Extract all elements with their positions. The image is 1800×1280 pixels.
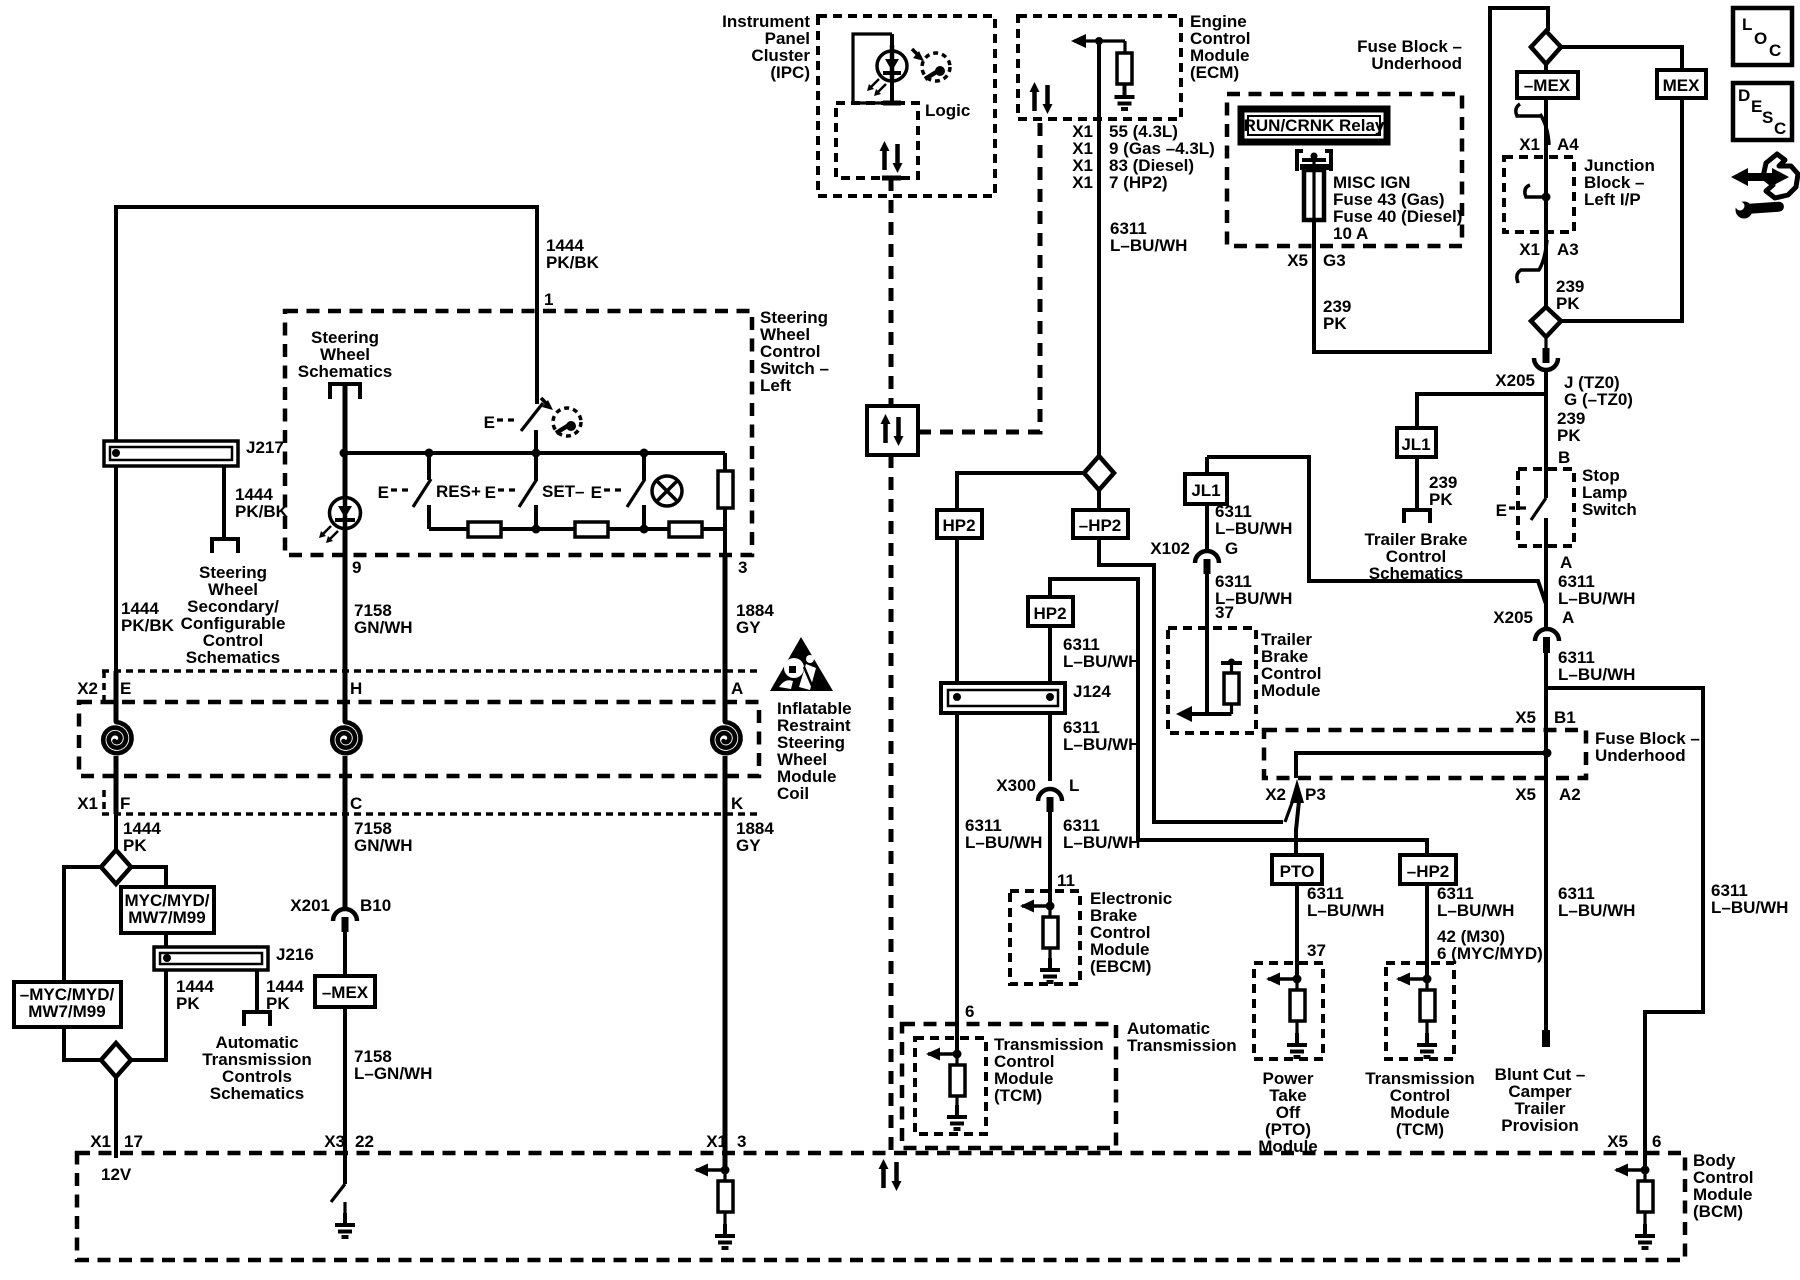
transmission control module dashed box (lower) bbox=[1386, 963, 1454, 1059]
TCM internal arrow bbox=[926, 1048, 954, 1061]
relay output terminal symbol bbox=[1311, 153, 1318, 160]
wire 6311 to BCM right bbox=[1547, 688, 1703, 1170]
PTO module internal arrow bbox=[1266, 973, 1294, 986]
HP2 box (second) bbox=[1028, 597, 1073, 626]
svg-text:L–BU/WH: L–BU/WH bbox=[1711, 898, 1788, 917]
svg-text:37: 37 bbox=[1307, 941, 1326, 960]
svg-text:3: 3 bbox=[737, 1132, 746, 1151]
svg-text:O: O bbox=[1754, 29, 1767, 48]
connector row X2 dotted line bbox=[102, 669, 757, 673]
off-page bracket steering wheel schematics bbox=[330, 384, 360, 399]
svg-text:L–BU/WH: L–BU/WH bbox=[1437, 901, 1514, 920]
svg-text:PK/BK: PK/BK bbox=[121, 616, 175, 635]
resistor R1 bbox=[468, 522, 501, 537]
stop lamp switch blade bbox=[1531, 498, 1546, 520]
serial data arrows in logic box bbox=[880, 141, 903, 173]
svg-text:X1: X1 bbox=[90, 1132, 111, 1151]
RUN/CRNK relay box bbox=[1241, 109, 1387, 142]
arrow pointing into speedometer bbox=[912, 49, 920, 57]
svg-text:JL1: JL1 bbox=[1191, 481, 1220, 500]
coil winding center bbox=[332, 722, 360, 753]
LED illumination arrows bbox=[870, 79, 879, 88]
svg-text:–MEX: –MEX bbox=[322, 983, 369, 1002]
wire from diamond to MEX bbox=[1561, 47, 1682, 70]
inline connector X205 J male stub bbox=[1544, 337, 1547, 349]
svg-text:HP2: HP2 bbox=[942, 516, 975, 535]
steering wheel control switch dashed box bbox=[285, 311, 752, 555]
wrench icon bbox=[1736, 202, 1753, 219]
BCM internal switch blade bbox=[331, 1184, 345, 1202]
svg-text:X1: X1 bbox=[706, 1132, 727, 1151]
svg-text:GY: GY bbox=[736, 836, 761, 855]
wire X201 to -MEX bbox=[343, 932, 347, 976]
svg-text:RUN/CRNK Relay: RUN/CRNK Relay bbox=[1244, 116, 1385, 135]
JL1 box (splice to X102) bbox=[1185, 474, 1227, 504]
EBCM internal arrow bbox=[1020, 900, 1048, 913]
ECM pull-up resistor bbox=[1123, 41, 1126, 53]
svg-text:L–BU/WH: L–BU/WH bbox=[1307, 901, 1384, 920]
svg-text:(IPC): (IPC) bbox=[770, 63, 810, 82]
svg-text:Schematics: Schematics bbox=[298, 362, 393, 381]
LED illumination arrows bbox=[322, 526, 331, 535]
svg-text:L–BU/WH: L–BU/WH bbox=[1110, 236, 1187, 255]
svg-text:E: E bbox=[1751, 97, 1762, 116]
svg-text:X300: X300 bbox=[996, 776, 1036, 795]
svg-text:A4: A4 bbox=[1557, 135, 1579, 154]
inline connector X205 J female cup bbox=[1534, 358, 1558, 370]
junction block left I/P dashed box bbox=[1504, 157, 1574, 232]
svg-text:L: L bbox=[1069, 776, 1079, 795]
fuse MISC IGN bbox=[1304, 170, 1324, 220]
svg-text:(BCM): (BCM) bbox=[1693, 1202, 1743, 1221]
svg-text:Switch: Switch bbox=[1582, 500, 1637, 519]
J217 splice pack bbox=[104, 441, 238, 466]
wire X300 to EBCM bbox=[1048, 812, 1052, 906]
inline connector X102 female dome bbox=[1195, 551, 1219, 563]
svg-text:L–GN/WH: L–GN/WH bbox=[354, 1064, 432, 1083]
wire from JL1 riser joining X205 A bbox=[1205, 457, 1209, 474]
svg-text:37: 37 bbox=[1215, 603, 1234, 622]
switch common rail bbox=[344, 451, 725, 455]
svg-text:MEX: MEX bbox=[1663, 76, 1701, 95]
svg-text:E: E bbox=[120, 679, 131, 698]
HP2 box (left) bbox=[937, 510, 982, 538]
blunt cut wire end stub bbox=[1542, 1030, 1550, 1047]
svg-text:PK: PK bbox=[123, 836, 147, 855]
svg-text:X102: X102 bbox=[1150, 539, 1190, 558]
svg-text:–HP2: –HP2 bbox=[1079, 516, 1122, 535]
resistor R2 bbox=[575, 522, 608, 537]
svg-text:6: 6 bbox=[965, 1002, 974, 1021]
svg-text:A: A bbox=[1562, 608, 1574, 627]
svg-text:PK/BK: PK/BK bbox=[546, 253, 600, 272]
left branch wire bbox=[64, 867, 101, 982]
svg-text:G3: G3 bbox=[1323, 251, 1346, 270]
SET- switch drop bbox=[534, 453, 538, 480]
svg-text:JL1: JL1 bbox=[1401, 435, 1430, 454]
TCM internal resistor bbox=[955, 1054, 958, 1065]
svg-text:L–BU/WH: L–BU/WH bbox=[1063, 833, 1140, 852]
wire 1884 GY from pin 3 bbox=[723, 557, 728, 720]
RES+ switch drop bbox=[427, 453, 431, 480]
inline connector X102 male stub bbox=[1204, 559, 1211, 574]
-MEX box (lower) bbox=[315, 976, 375, 1007]
wire branch into X2 P3 (left) bbox=[1285, 800, 1293, 822]
-HP2 box (lower) bbox=[1400, 855, 1456, 884]
wire through coil right bbox=[723, 671, 728, 722]
cancel lower drop bbox=[642, 505, 646, 529]
resistor R3 bbox=[669, 522, 702, 537]
wire from stop lamp switch down bbox=[1544, 518, 1548, 628]
BCM internal ground (pin 3) bbox=[715, 1224, 735, 1248]
svg-text:X1: X1 bbox=[1072, 173, 1093, 192]
trailer brake module resistor bbox=[1230, 663, 1233, 673]
cancel switch drop bbox=[642, 453, 646, 480]
svg-text:GY: GY bbox=[736, 618, 761, 637]
wire 239 PK to stop lamp switch bbox=[1544, 370, 1548, 498]
wire 6311 below X205 A bbox=[1544, 653, 1548, 1030]
splice diamond (6311) bbox=[1084, 456, 1114, 490]
automatic transmission dashed box bbox=[902, 1024, 1116, 1148]
svg-text:(EBCM): (EBCM) bbox=[1090, 957, 1151, 976]
svg-text:X5: X5 bbox=[1515, 708, 1536, 727]
svg-text:C: C bbox=[1769, 41, 1781, 60]
svg-text:L: L bbox=[1742, 15, 1752, 34]
stop lamp switch dashed box bbox=[1518, 469, 1574, 546]
svg-text:7 (HP2): 7 (HP2) bbox=[1109, 173, 1168, 192]
cancel switch blade bbox=[627, 479, 645, 507]
-MEX box bbox=[1517, 72, 1578, 98]
node dot bbox=[1543, 749, 1552, 758]
speedometer icon in IPC bbox=[922, 53, 950, 81]
svg-text:E: E bbox=[591, 483, 602, 502]
wire 7158 GN/WH from pin 9 bbox=[343, 557, 348, 720]
navigation double arrow bbox=[1744, 173, 1776, 181]
svg-text:MW7/M99: MW7/M99 bbox=[28, 1002, 105, 1021]
svg-text:J124: J124 bbox=[1073, 682, 1111, 701]
svg-text:B10: B10 bbox=[360, 896, 391, 915]
svg-text:–HP2: –HP2 bbox=[1407, 862, 1450, 881]
node T-bar at logic box top bbox=[883, 101, 901, 106]
J216 splice pack bbox=[154, 947, 268, 970]
-MYC/MYD/MW7/M99 box bbox=[14, 982, 121, 1027]
ECM internal arrow bbox=[1074, 39, 1125, 42]
svg-text:A3: A3 bbox=[1557, 240, 1579, 259]
svg-text:J216: J216 bbox=[276, 945, 314, 964]
svg-text:L–BU/WH: L–BU/WH bbox=[1558, 901, 1635, 920]
MYC/MYD/MW7/M99 box bbox=[121, 887, 214, 933]
PTO box bbox=[1272, 855, 1322, 884]
RES+ lower drop bbox=[427, 505, 431, 529]
RES+ switch blade bbox=[413, 479, 431, 507]
speedometer icon (cruise) bbox=[553, 408, 581, 436]
serial data dashed wire from IPC logic down bbox=[889, 178, 894, 406]
svg-text:Underhood: Underhood bbox=[1595, 746, 1686, 765]
wire 1444 PK/BK down left bbox=[114, 466, 118, 720]
svg-text:Schematics: Schematics bbox=[186, 648, 281, 667]
BCM internal ground (right) bbox=[1635, 1224, 1655, 1248]
BCM internal arrow (pin 3) bbox=[694, 1164, 722, 1177]
cruise on/off switch blade bbox=[521, 403, 543, 431]
EBCM internal ground bbox=[1040, 958, 1060, 982]
svg-text:PK: PK bbox=[1429, 490, 1453, 509]
svg-text:S: S bbox=[1762, 108, 1773, 127]
svg-text:–MEX: –MEX bbox=[1524, 76, 1571, 95]
logic dashed box bbox=[836, 103, 918, 178]
wire J124 to X300 bbox=[1048, 713, 1052, 781]
svg-text:X205: X205 bbox=[1495, 371, 1535, 390]
trailer brake module bottom wire with arrow bbox=[1181, 712, 1232, 716]
wire 7158 L-GN/WH to BCM bbox=[343, 1007, 347, 1184]
ECM serial data arrows bbox=[1030, 82, 1053, 114]
svg-text:Coil: Coil bbox=[777, 784, 809, 803]
cruise indicator LED L1 bbox=[877, 51, 907, 81]
svg-text:C: C bbox=[1774, 119, 1786, 138]
-HP2 box (upper) bbox=[1073, 510, 1128, 538]
MEX branch wire bbox=[1562, 98, 1682, 321]
svg-text:X5: X5 bbox=[1515, 785, 1536, 804]
svg-text:A: A bbox=[731, 679, 743, 698]
svg-text:L–BU/WH: L–BU/WH bbox=[1558, 665, 1635, 684]
svg-text:H: H bbox=[350, 679, 362, 698]
inline connector X300 female dome bbox=[1038, 789, 1062, 801]
svg-text:X2: X2 bbox=[77, 679, 98, 698]
svg-text:Left: Left bbox=[760, 376, 792, 395]
svg-text:X1: X1 bbox=[1519, 240, 1540, 259]
junction of JL1 branch bbox=[1417, 394, 1544, 428]
svg-text:A: A bbox=[1560, 553, 1572, 572]
fuse block underhood dashed box (lower) bbox=[1264, 730, 1586, 778]
svg-text:MW7/M99: MW7/M99 bbox=[128, 908, 205, 927]
wire from HP2 path to -HP2 module branch bbox=[1050, 579, 1427, 855]
svg-text:Underhood: Underhood bbox=[1371, 54, 1462, 73]
svg-text:L–BU/WH: L–BU/WH bbox=[1215, 519, 1292, 538]
svg-text:PTO: PTO bbox=[1280, 862, 1315, 881]
node dots on resistor rail bbox=[532, 525, 541, 534]
svg-text:A2: A2 bbox=[1559, 785, 1581, 804]
wire cruise switch to rail bbox=[534, 430, 538, 453]
svg-text:X1: X1 bbox=[1519, 135, 1540, 154]
svg-text:GN/WH: GN/WH bbox=[354, 618, 413, 637]
BCM serial data arrows bbox=[879, 1159, 902, 1191]
wire HP2 to TCM bbox=[955, 538, 959, 1054]
serial data junction box bbox=[867, 406, 918, 455]
inline connector X201 male stub bbox=[342, 917, 349, 932]
DESC legend box bbox=[1733, 83, 1792, 140]
BCM internal arrow (right) bbox=[1614, 1164, 1642, 1177]
svg-text:L–BU/WH: L–BU/WH bbox=[965, 833, 1042, 852]
wire -HP2 box to TCM module bbox=[1425, 884, 1429, 979]
svg-text:PK: PK bbox=[176, 994, 200, 1013]
engine control module (ECM) dashed box bbox=[1018, 16, 1181, 119]
wire J217 tap down bbox=[222, 466, 226, 539]
SET- lower drop bbox=[534, 505, 538, 529]
wire PTO box to module bbox=[1295, 884, 1299, 979]
splice diamond upper left bbox=[101, 850, 131, 884]
svg-text:D: D bbox=[1738, 86, 1750, 105]
body control module (BCM) dashed box bbox=[77, 1153, 1685, 1260]
svg-text:PK: PK bbox=[1556, 294, 1580, 313]
wire 6311 from X102 to trailer brake module bbox=[1205, 574, 1209, 714]
svg-text:K: K bbox=[731, 794, 744, 813]
node dots on rail bbox=[340, 449, 349, 458]
wire through coil center bbox=[343, 671, 348, 722]
EBCM internal resistor bbox=[1048, 906, 1051, 917]
inline connector X205 A male stub bbox=[1543, 637, 1550, 653]
LOC legend box bbox=[1733, 8, 1792, 65]
svg-text:RES+: RES+ bbox=[436, 482, 481, 501]
wire 1444 PK/BK top run bbox=[116, 207, 537, 441]
svg-text:G (–TZ0): G (–TZ0) bbox=[1564, 390, 1633, 409]
TCM module ground bbox=[1417, 1033, 1437, 1057]
trailer brake control module dashed box bbox=[1168, 628, 1256, 733]
svg-text:X2: X2 bbox=[1265, 785, 1286, 804]
TCM module resistor bbox=[1425, 979, 1428, 990]
svg-text:(TCM): (TCM) bbox=[994, 1086, 1042, 1105]
serial data dashed wire from junction box down to BCM bbox=[889, 455, 894, 1152]
off-page bracket steering wheel secondary bbox=[212, 539, 238, 553]
svg-text:10 A: 10 A bbox=[1333, 224, 1368, 243]
svg-text:9: 9 bbox=[352, 558, 361, 577]
trailer brake module internal contact bar bbox=[1221, 661, 1242, 665]
J124 splice pack bbox=[941, 683, 1065, 713]
inline connector X205 A female dome bbox=[1535, 629, 1559, 641]
fuse block underhood dashed box (top) bbox=[1227, 94, 1462, 246]
wire 6311 from ECM down bbox=[1097, 41, 1101, 457]
svg-text:12V: 12V bbox=[101, 1165, 132, 1184]
electronic brake control module dashed box bbox=[1010, 891, 1080, 984]
svg-text:X3: X3 bbox=[324, 1132, 345, 1151]
airbag warning triangle bbox=[770, 637, 833, 691]
node T-bar at logic box bottom bbox=[882, 176, 901, 181]
svg-text:X5: X5 bbox=[1607, 1132, 1628, 1151]
resistor rail bbox=[429, 527, 725, 531]
SET- switch blade bbox=[519, 479, 537, 507]
svg-text:22: 22 bbox=[355, 1132, 374, 1151]
svg-text:B1: B1 bbox=[1554, 708, 1576, 727]
wire -MEX down through junction block bbox=[1544, 64, 1548, 72]
off-page bracket automatic transmission controls bbox=[244, 1012, 270, 1026]
right branch resistor R4 bbox=[723, 453, 727, 471]
svg-text:L–BU/WH: L–BU/WH bbox=[1063, 652, 1140, 671]
wire JL1 to X102 bbox=[1205, 504, 1209, 551]
svg-text:X1: X1 bbox=[77, 794, 98, 813]
PTO module resistor bbox=[1295, 979, 1298, 990]
svg-text:1: 1 bbox=[544, 290, 553, 309]
coil winding right bbox=[712, 722, 740, 753]
wire through indicator bbox=[890, 34, 894, 101]
connector arrow X2 P3 bbox=[1290, 779, 1304, 803]
svg-text:E: E bbox=[378, 483, 389, 502]
junction block internal hook bbox=[1525, 185, 1546, 197]
svg-text:PK: PK bbox=[1323, 314, 1347, 333]
transmission control module dashed box (upper) bbox=[915, 1038, 986, 1134]
serial data dashed wire from ECM to junction box bbox=[918, 119, 1040, 432]
LED indicator (steering wheel) bbox=[330, 498, 361, 529]
svg-text:P3: P3 bbox=[1305, 785, 1326, 804]
svg-text:11: 11 bbox=[1057, 871, 1075, 890]
TCM internal ground bbox=[947, 1105, 967, 1129]
svg-text:E: E bbox=[485, 483, 496, 502]
svg-text:SET–: SET– bbox=[542, 482, 585, 501]
svg-text:3: 3 bbox=[738, 558, 747, 577]
svg-text:(TCM): (TCM) bbox=[1396, 1120, 1444, 1139]
navigation hand icon bbox=[1763, 154, 1798, 198]
BCM internal resistor (pin 3) bbox=[723, 1170, 726, 1181]
wire HP2 second down to J124 bbox=[1048, 626, 1052, 697]
wire through coil left bbox=[114, 671, 119, 722]
inline connector X201 female dome bbox=[333, 909, 357, 921]
svg-text:F: F bbox=[120, 794, 130, 813]
svg-text:Left I/P: Left I/P bbox=[1584, 190, 1641, 209]
wire J216 tap down bbox=[255, 970, 259, 1012]
instrument panel cluster (IPC) dashed box bbox=[818, 16, 995, 196]
wire from -HP2 path to arrow bbox=[1097, 490, 1101, 510]
connector hook X1 A3 bbox=[1539, 240, 1547, 270]
svg-text:E: E bbox=[1496, 501, 1507, 520]
indicator bulb housing rectangle bbox=[853, 34, 892, 103]
svg-text:X201: X201 bbox=[290, 896, 330, 915]
off-page bracket trailer brake control schematics bbox=[1404, 510, 1430, 523]
ECM ground bbox=[1115, 85, 1135, 109]
connector hook X1 A4 bbox=[1516, 104, 1540, 116]
MEX box bbox=[1657, 70, 1706, 98]
coil winding left bbox=[103, 722, 131, 753]
svg-text:G: G bbox=[1225, 539, 1238, 558]
inflatable restraint coil dashed box bbox=[79, 702, 759, 776]
svg-text:E: E bbox=[484, 413, 495, 432]
arrow pointing to speedometer bbox=[541, 398, 549, 406]
svg-text:(ECM): (ECM) bbox=[1190, 63, 1239, 82]
svg-text:6 (MYC/MYD): 6 (MYC/MYD) bbox=[1437, 944, 1543, 963]
BCM internal ground (center) bbox=[343, 1202, 346, 1213]
JL1 box (to stop lamp circuit) bbox=[1397, 428, 1436, 457]
right branch wire bbox=[131, 867, 166, 947]
inline connector X300 male stub bbox=[1047, 797, 1054, 812]
connector row X1 dotted line bbox=[102, 812, 757, 816]
splice diamond (top right) bbox=[1531, 31, 1561, 64]
svg-text:C: C bbox=[350, 794, 362, 813]
svg-text:6: 6 bbox=[1652, 1132, 1661, 1151]
power take off module dashed box bbox=[1254, 963, 1323, 1059]
wire JL1 down to off-page bbox=[1415, 457, 1419, 509]
PTO module ground bbox=[1287, 1033, 1307, 1057]
wire from bracket to LED bbox=[343, 386, 348, 557]
wire diamond to BCM bbox=[114, 1077, 118, 1158]
BCM internal resistor (right) bbox=[1643, 1170, 1646, 1181]
svg-text:J217: J217 bbox=[246, 438, 284, 457]
svg-text:Module: Module bbox=[1261, 681, 1321, 700]
svg-text:Provision: Provision bbox=[1501, 1116, 1578, 1135]
svg-text:HP2: HP2 bbox=[1033, 604, 1066, 623]
node dot ECM bbox=[1095, 37, 1103, 45]
wire diamond to HP2 bbox=[957, 473, 1084, 510]
svg-text:L–BU/WH: L–BU/WH bbox=[1558, 589, 1635, 608]
svg-text:L–BU/WH: L–BU/WH bbox=[1063, 735, 1140, 754]
svg-text:Transmission: Transmission bbox=[1127, 1036, 1237, 1055]
TCM module internal arrow bbox=[1396, 973, 1424, 986]
svg-text:17: 17 bbox=[124, 1132, 143, 1151]
svg-text:Logic: Logic bbox=[925, 101, 970, 120]
splice diamond lower left bbox=[101, 1043, 131, 1077]
svg-text:Schematics: Schematics bbox=[210, 1084, 305, 1103]
svg-text:X5: X5 bbox=[1287, 251, 1308, 270]
svg-text:PK: PK bbox=[1557, 426, 1581, 445]
svg-text:X205: X205 bbox=[1493, 608, 1533, 627]
svg-text:GN/WH: GN/WH bbox=[354, 836, 413, 855]
wire branch into X2 P3 (PTO drop) bbox=[1296, 801, 1299, 855]
svg-text:PK/BK: PK/BK bbox=[235, 502, 289, 521]
